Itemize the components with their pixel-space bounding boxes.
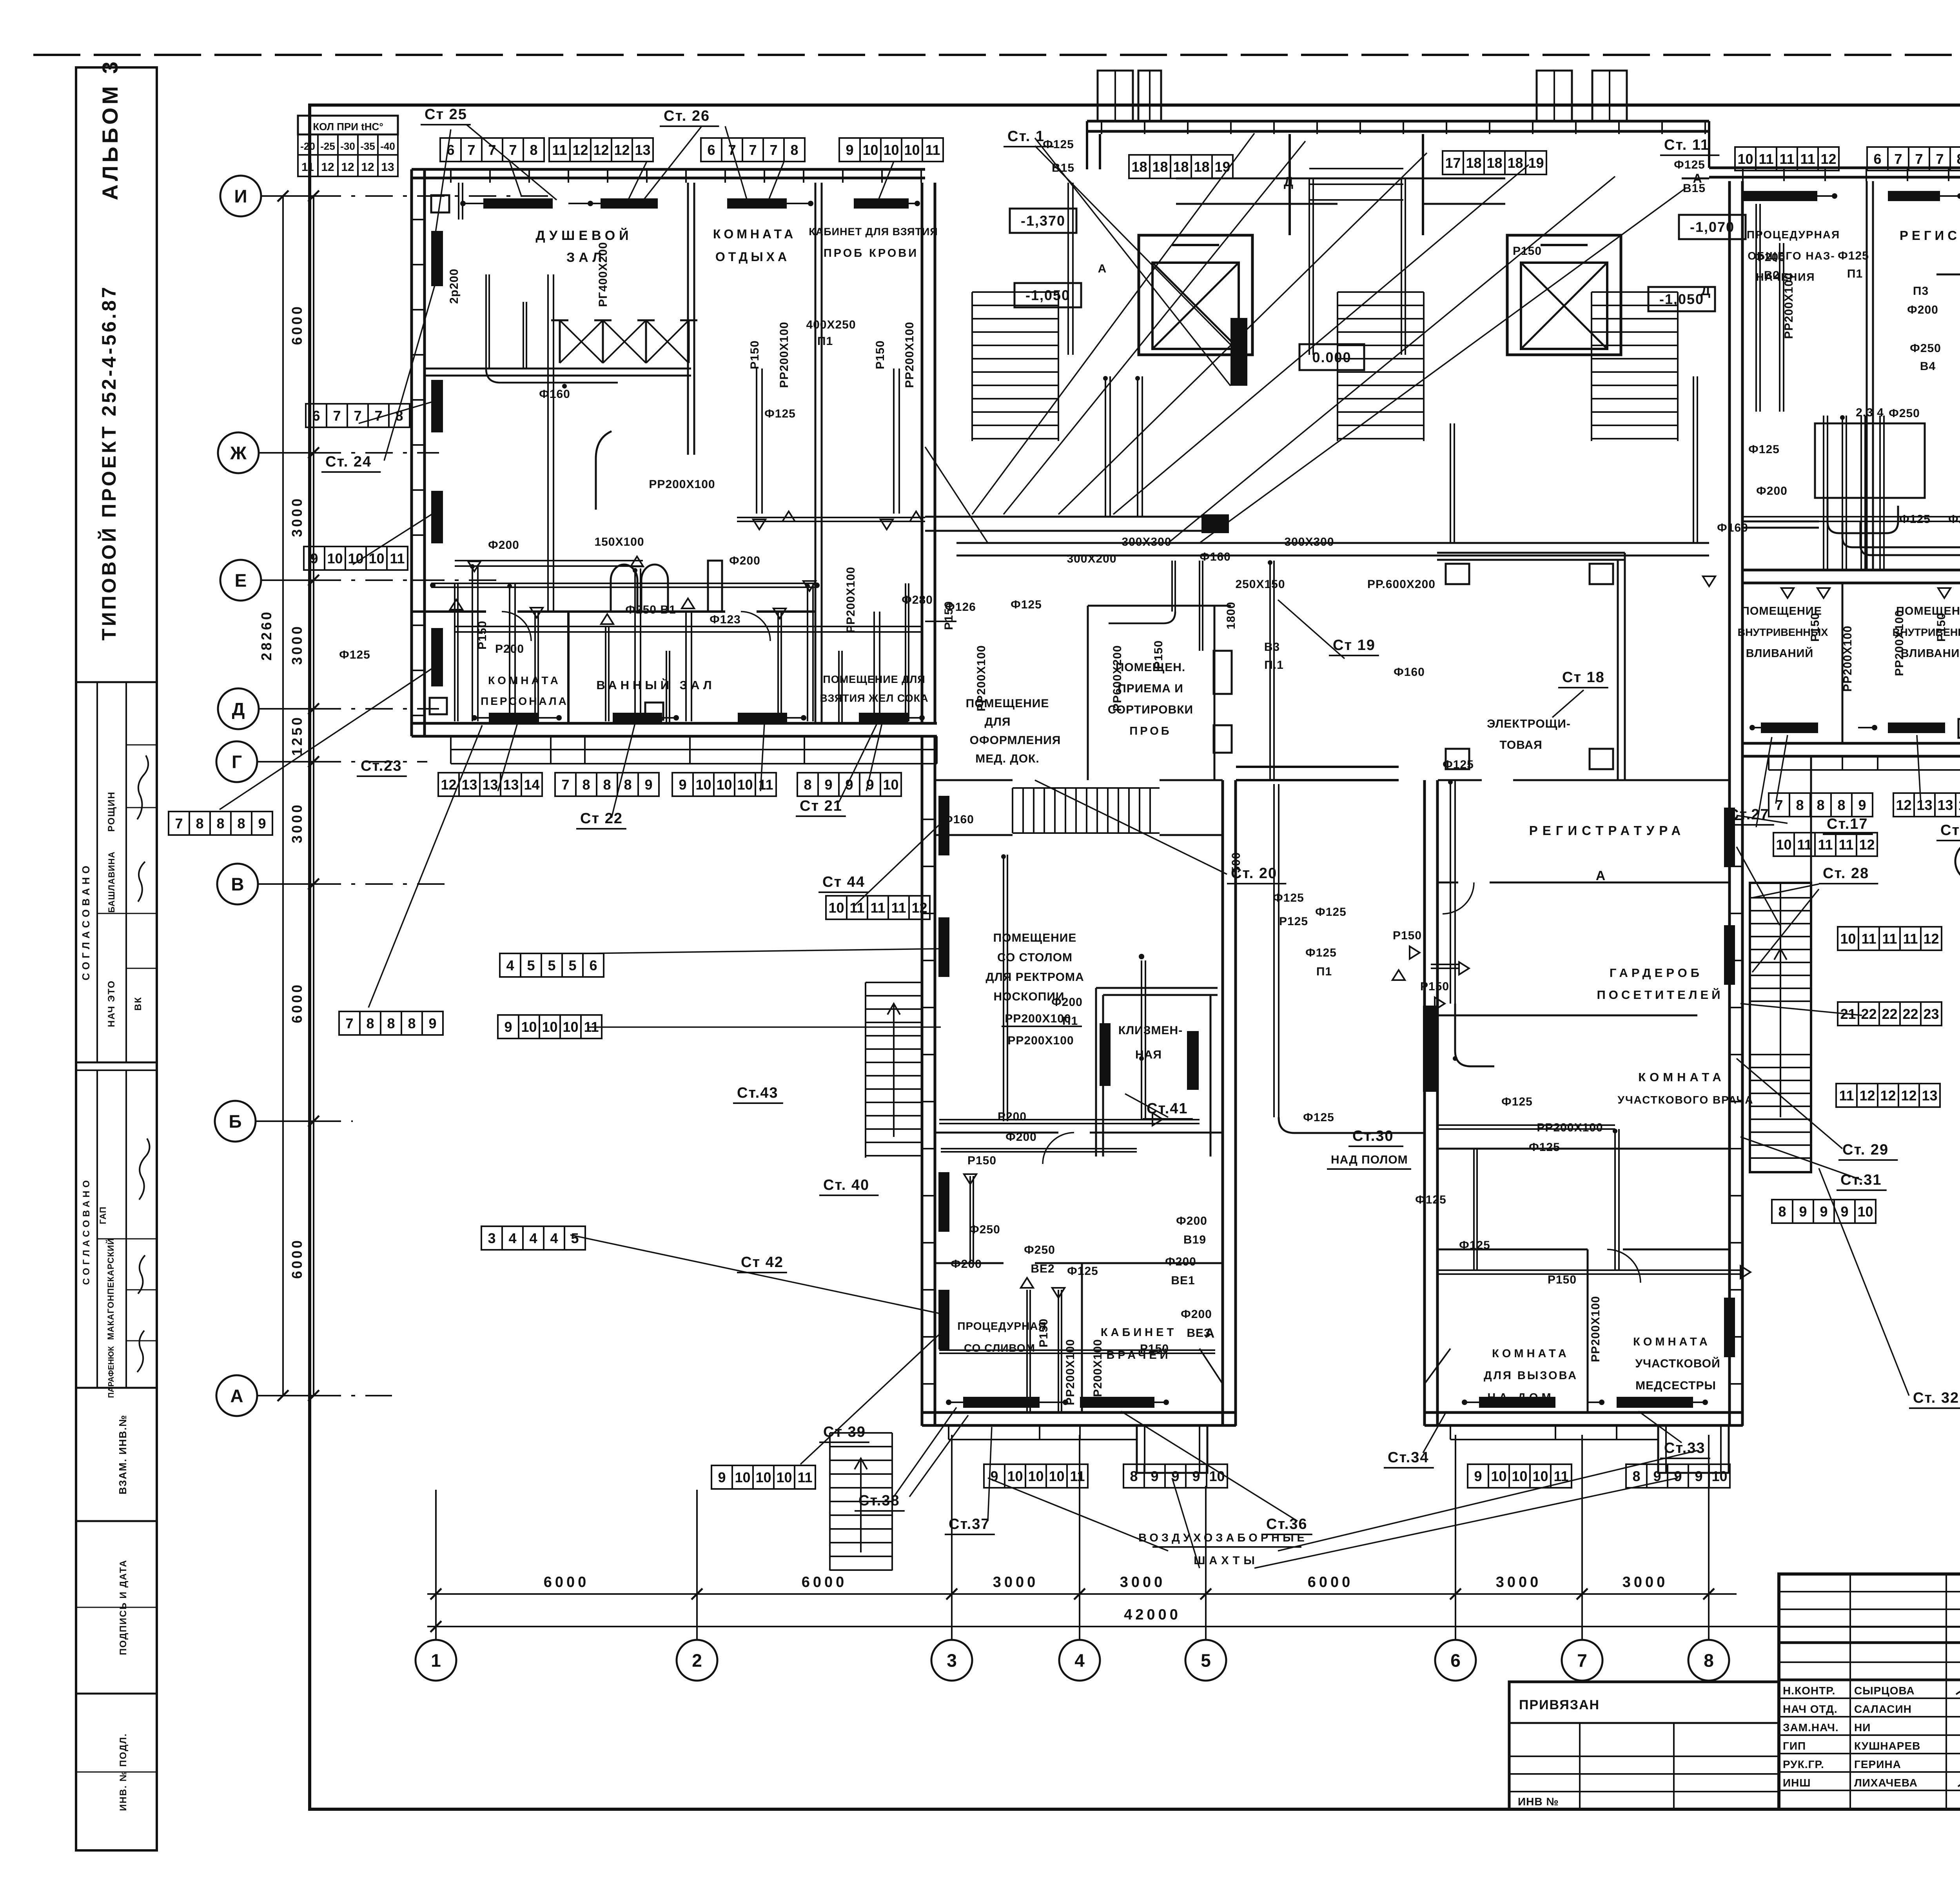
svg-text:Ст 21: Ст 21 [800, 798, 842, 814]
svg-text:12: 12 [593, 142, 609, 158]
svg-text:-30: -30 [340, 140, 355, 152]
svg-text:18: 18 [1486, 155, 1502, 171]
svg-text:9: 9 [846, 142, 853, 158]
radiator right wing top x4816 [1888, 191, 1940, 201]
svg-text:ПЕКАРСКИЙ: ПЕКАРСКИЙ [106, 1238, 116, 1294]
radiator left wall y1602 [431, 628, 443, 686]
svg-text:7: 7 [509, 142, 517, 158]
svg-text:РР200Х100: РР200Х100 [1841, 625, 1854, 692]
axis 3 circle [931, 1640, 972, 1681]
svg-text:Ф125: Ф125 [1067, 1265, 1098, 1278]
svg-text:8: 8 [237, 815, 245, 831]
svg-text:ЛИХАЧЕВА: ЛИХАЧЕВА [1854, 1777, 1918, 1789]
svg-text:4: 4 [508, 1230, 516, 1246]
svg-text:ВК: ВК [133, 997, 143, 1011]
svg-text:13: 13 [1958, 797, 1960, 813]
temperature table [298, 116, 398, 134]
number box 6-8 at 780,1030 [306, 404, 327, 427]
svg-text:И: И [234, 186, 247, 207]
svg-text:ОФОРМЛЕНИЯ: ОФОРМЛЕНИЯ [970, 734, 1061, 747]
number box 10-12 at 2107,2285 [826, 896, 847, 919]
svg-text:5: 5 [1201, 1650, 1211, 1671]
svg-text:5: 5 [571, 1230, 579, 1246]
svg-text:3000: 3000 [289, 802, 305, 843]
left leg outer walls [921, 736, 924, 1426]
svg-text:Ст 16: Ст 16 [1940, 822, 1960, 839]
svg-text:12: 12 [1820, 151, 1836, 167]
svg-text:8: 8 [1704, 1650, 1714, 1671]
svg-text:ОТДЫХА: ОТДЫХА [715, 250, 790, 264]
svg-text:Р150: Р150 [1393, 929, 1422, 942]
svg-text:12: 12 [1859, 1087, 1875, 1104]
svg-text:18: 18 [1152, 159, 1168, 175]
svg-text:9: 9 [1820, 1204, 1828, 1220]
svg-text:НИ: НИ [1854, 1721, 1871, 1734]
svg-text:7: 7 [175, 815, 183, 831]
privyazan box [1509, 1682, 1779, 1809]
radiator left leg y2990 [938, 1172, 949, 1232]
svg-text:Р200: Р200 [998, 1110, 1027, 1123]
svg-text:ВЕ2: ВЕ2 [1031, 1262, 1054, 1275]
number box 10-12 at 4688,2364 [1838, 927, 1858, 950]
svg-text:Ст.30: Ст.30 [1352, 1128, 1394, 1144]
svg-text:В3: В3 [1264, 641, 1280, 654]
svg-text:ТИПОВОЙ ПРОЕКТ 252-4-56.87: ТИПОВОЙ ПРОЕКТ 252-4-56.87 [98, 285, 120, 641]
svg-text:Р125: Р125 [1279, 915, 1308, 928]
svg-text:-40: -40 [380, 140, 395, 152]
svg-text:Ф200: Ф200 [729, 554, 760, 567]
svg-text:Н.КОНТР.: Н.КОНТР. [1783, 1685, 1835, 1697]
svg-text:11: 11 [1838, 837, 1853, 853]
svg-text:7: 7 [1577, 1650, 1587, 1671]
staircase right of elevator2 [1592, 291, 1678, 293]
svg-text:УЧАСТКОВОЙ: УЧАСТКОВОЙ [1635, 1357, 1720, 1370]
svg-text:10: 10 [1857, 1204, 1873, 1220]
svg-text:Р150: Р150 [1152, 640, 1165, 669]
svg-text:Ф200: Ф200 [1005, 1131, 1037, 1144]
svg-text:Ф250 В1: Ф250 В1 [625, 603, 676, 616]
riser bar near elevator [1230, 318, 1247, 386]
svg-text:ПРОБ КРОВИ: ПРОБ КРОВИ [824, 247, 918, 260]
svg-text:СОГЛАСОВАНО: СОГЛАСОВАНО [81, 1177, 92, 1285]
radiator top wall x1233 [483, 198, 553, 209]
svg-text:Ф125: Ф125 [1529, 1141, 1560, 1154]
svg-text:Р150: Р150 [1513, 245, 1542, 258]
svg-text:11: 11 [301, 161, 314, 174]
svg-text:10: 10 [862, 142, 878, 158]
svg-text:11: 11 [1839, 1087, 1854, 1104]
svg-text:1800: 1800 [1225, 602, 1238, 630]
svg-text:12: 12 [1923, 931, 1939, 947]
svg-text:Ф125: Ф125 [1443, 758, 1474, 771]
svg-text:12: 12 [572, 142, 588, 158]
extra pipes left wing bottom [431, 583, 815, 584]
svg-text:Ф123: Ф123 [710, 613, 741, 626]
svg-text:2р200: 2р200 [448, 269, 461, 304]
left leg radiators inner [1100, 1023, 1111, 1086]
svg-text:3000: 3000 [1496, 1574, 1542, 1590]
svg-text:11: 11 [1818, 837, 1833, 853]
svg-text:Ф200: Ф200 [1051, 996, 1083, 1009]
svg-text:4: 4 [1074, 1650, 1085, 1671]
svg-text:7: 7 [1936, 151, 1944, 167]
number box 21-23 at 4688,2556 [1838, 1002, 1858, 1026]
svg-text:10: 10 [1840, 931, 1856, 947]
axis 2 circle [677, 1640, 717, 1681]
right wing outer walls [1709, 167, 1960, 169]
svg-text:Б: Б [229, 1111, 241, 1132]
porch at left leg bottom [1137, 1426, 1207, 1473]
svg-text:ГЕРИНА: ГЕРИНА [1854, 1758, 1901, 1770]
svg-text:ГИП: ГИП [1783, 1740, 1806, 1752]
svg-text:8: 8 [1837, 797, 1845, 813]
svg-text:12: 12 [321, 161, 334, 174]
extra central risers [1199, 561, 1200, 651]
svg-text:10: 10 [542, 1019, 557, 1035]
svg-text:НА ДОМ: НА ДОМ [1487, 1391, 1554, 1404]
svg-text:Ст 22: Ст 22 [580, 810, 623, 827]
svg-text:В: В [231, 874, 244, 895]
svg-text:Ст. 40: Ст. 40 [823, 1177, 869, 1193]
radiator left wall y1252 [431, 491, 443, 543]
svg-text:СОГЛАСОВАНО: СОГЛАСОВАНО [80, 862, 92, 980]
svg-text:1: 1 [431, 1650, 441, 1671]
svg-text:КОМНАТА: КОМНАТА [488, 674, 561, 686]
svg-text:КОЛ ПРИ tНС°: КОЛ ПРИ tНС° [313, 121, 383, 133]
svg-text:11: 11 [1797, 837, 1812, 853]
svg-text:-35: -35 [360, 140, 375, 152]
right wing west wall [1728, 181, 1731, 780]
svg-text:3000: 3000 [289, 496, 305, 537]
svg-text:9: 9 [310, 550, 318, 566]
radiator bottom wall x1247 [489, 713, 539, 723]
svg-text:9: 9 [845, 777, 853, 793]
svg-text:СЫРЦОВА: СЫРЦОВА [1854, 1685, 1915, 1697]
svg-text:7: 7 [374, 408, 382, 424]
svg-text:Р150: Р150 [1420, 980, 1449, 993]
sheet top edge dashed line [33, 54, 1960, 56]
svg-text:Ф250: Ф250 [1910, 342, 1941, 355]
svg-text:Д: Д [1701, 283, 1710, 298]
vestibule walls [1289, 134, 1291, 235]
svg-text:РР200Х100: РР200Х100 [649, 478, 715, 491]
axis А circle [216, 1375, 257, 1416]
duct leader diagonals [972, 133, 1254, 514]
axis 4 circle [1059, 1640, 1100, 1681]
east stair block [1750, 883, 1811, 1172]
svg-text:МЕДСЕСТРЫ: МЕДСЕСТРЫ [1635, 1379, 1716, 1392]
svg-text:12: 12 [1859, 837, 1875, 853]
number box 6-8 at 1123,352 [440, 138, 461, 162]
radiator right leg y2060 [1724, 808, 1735, 867]
svg-text:РОЩИН: РОЩИН [106, 791, 117, 831]
number box 11-13 at 1401,352 [549, 138, 570, 162]
svg-text:23: 23 [1923, 1006, 1939, 1022]
right leg partitions [1438, 882, 1458, 884]
svg-text:ВАННЫЙ ЗАЛ: ВАННЫЙ ЗАЛ [596, 678, 715, 692]
svg-text:9: 9 [679, 777, 686, 793]
svg-text:11: 11 [1903, 931, 1918, 947]
svg-text:Ст. 28: Ст. 28 [1823, 865, 1869, 882]
svg-text:-20: -20 [300, 140, 315, 152]
svg-text:7: 7 [467, 142, 475, 158]
svg-text:Ст.17: Ст.17 [1827, 816, 1868, 832]
svg-text:18: 18 [1194, 159, 1209, 175]
svg-text:Ст 25: Ст 25 [425, 106, 467, 123]
door arcs [1443, 882, 1474, 914]
svg-text:Ф125: Ф125 [1011, 598, 1042, 611]
svg-text:Ф200: Ф200 [1756, 485, 1788, 497]
svg-text:Ф125: Ф125 [1748, 443, 1780, 456]
svg-text:МЕД. ДОК.: МЕД. ДОК. [975, 752, 1039, 765]
svg-text:Р150: Р150 [748, 340, 761, 369]
svg-text:ВЕ3: ВЕ3 [1187, 1327, 1210, 1340]
svg-text:10: 10 [1512, 1468, 1527, 1484]
svg-text:22: 22 [1902, 1006, 1918, 1022]
svg-text:8: 8 [804, 777, 811, 793]
svg-text:Ф160: Ф160 [1394, 666, 1425, 679]
svg-text:РР.600Х200: РР.600Х200 [1367, 578, 1436, 591]
svg-text:6000: 6000 [1308, 1574, 1354, 1590]
svg-text:10: 10 [737, 777, 753, 793]
svg-text:Ф125: Ф125 [1303, 1111, 1334, 1124]
svg-text:САЛАСИН: САЛАСИН [1854, 1703, 1912, 1715]
svg-text:6000: 6000 [544, 1574, 590, 1590]
svg-text:Ст. 32: Ст. 32 [1913, 1390, 1959, 1406]
svg-text:Ст.37: Ст.37 [949, 1516, 990, 1532]
svg-text:Р150: Р150 [874, 340, 887, 369]
svg-text:ГАП: ГАП [98, 1206, 108, 1224]
axis Б circle [215, 1101, 256, 1142]
svg-text:КАБИНЕТ: КАБИНЕТ [1101, 1326, 1177, 1339]
svg-text:Ф200: Ф200 [1176, 1215, 1207, 1227]
svg-text:КУШНАРЕВ: КУШНАРЕВ [1854, 1740, 1920, 1752]
svg-text:Ст.38: Ст.38 [858, 1492, 900, 1509]
svg-text:10: 10 [695, 777, 711, 793]
svg-text:Ф200: Ф200 [951, 1258, 982, 1271]
wall between legs [1236, 766, 1399, 768]
svg-text:9: 9 [1799, 1204, 1807, 1220]
svg-text:Ф250: Ф250 [1024, 1244, 1055, 1256]
svg-text:11: 11 [1861, 931, 1876, 947]
svg-text:Ф126: Ф126 [945, 601, 976, 614]
svg-text:4: 4 [550, 1230, 558, 1246]
number box 9-11 at 1270,2589 [498, 1015, 519, 1038]
svg-text:10: 10 [776, 1469, 792, 1485]
number box 12-14 at 4830,2023 [1893, 793, 1914, 817]
svg-text:Ф125: Ф125 [339, 648, 370, 661]
number box 7-9 at 4512,2023 [1769, 793, 1789, 817]
svg-text:300Х200: 300Х200 [1067, 552, 1116, 565]
svg-text:11: 11 [1070, 1468, 1085, 1484]
svg-text:7: 7 [354, 408, 361, 424]
svg-text:10: 10 [716, 777, 732, 793]
svg-text:9: 9 [1674, 1468, 1682, 1484]
svg-text:250Х150: 250Х150 [1235, 578, 1285, 591]
svg-text:РР200Х100: РР200Х100 [778, 321, 791, 388]
svg-text:6000: 6000 [289, 304, 305, 345]
svg-text:6: 6 [1450, 1650, 1461, 1671]
left leg radiators bottom [963, 1397, 1040, 1408]
svg-text:Ст. 29: Ст. 29 [1842, 1142, 1889, 1158]
bottom dimension lines [427, 1593, 1737, 1595]
axis 7 circle [1562, 1640, 1602, 1681]
middle wall between kabinet and entry [921, 183, 924, 723]
title block [1779, 1574, 1960, 1809]
axis В circle [217, 864, 258, 904]
extra pipes shower room [485, 274, 487, 369]
svg-text:Е: Е [235, 570, 247, 591]
axis Ж circle [218, 432, 259, 473]
svg-text:12: 12 [341, 161, 354, 174]
stairs west outside lower [830, 1432, 892, 1434]
svg-text:9: 9 [428, 1015, 436, 1031]
svg-text:Ф250: Ф250 [1889, 407, 1920, 420]
svg-text:9: 9 [718, 1469, 726, 1485]
svg-text:10: 10 [904, 142, 920, 158]
svg-text:Ф125: Ф125 [1043, 138, 1074, 151]
pipes right wing [1823, 416, 1824, 570]
svg-text:7: 7 [1915, 151, 1923, 167]
svg-text:12: 12 [1896, 797, 1911, 813]
pom priema i sortirovki prob room [1088, 605, 1231, 607]
svg-text:42000: 42000 [1124, 1607, 1181, 1623]
svg-text:ВЛИВАНИЙ: ВЛИВАНИЙ [1901, 646, 1960, 660]
svg-text:Ф200: Ф200 [1907, 303, 1938, 316]
svg-text:КОМНАТА: КОМНАТА [1633, 1336, 1711, 1348]
svg-text:9: 9 [1151, 1468, 1158, 1484]
radiator top wall x1532 [601, 198, 658, 209]
valve triangles assorted [468, 561, 481, 572]
svg-text:Ф160: Ф160 [1200, 550, 1231, 563]
elevator shaft 2 [1507, 235, 1621, 355]
svg-text:КАБИНЕТ ДЛЯ ВЗЯТИЯ: КАБИНЕТ ДЛЯ ВЗЯТИЯ [809, 226, 938, 238]
svg-text:10: 10 [735, 1469, 750, 1485]
svg-text:РЕГИСТРАТУРА: РЕГИСТРАТУРА [1529, 823, 1686, 838]
svg-text:АЛЬБОМ 3: АЛЬБОМ 3 [98, 58, 122, 200]
pipes left leg [1003, 855, 1004, 1121]
svg-text:9: 9 [504, 1019, 512, 1035]
svg-text:Ф200: Ф200 [1754, 251, 1786, 264]
svg-text:Ф125: Ф125 [1838, 249, 1869, 262]
svg-text:8: 8 [196, 815, 203, 831]
radiator bottom wall x1882 [738, 713, 787, 723]
number box 9-11 at 1815,3738 [711, 1465, 732, 1489]
svg-text:РР200Х100: РР200Х100 [975, 645, 988, 711]
svg-text:1250: 1250 [289, 715, 305, 756]
svg-text:В4: В4 [1920, 360, 1936, 373]
svg-text:Ж: Ж [230, 443, 247, 463]
radiator bottom wall x2191 [859, 713, 908, 723]
svg-text:ЗАМ.НАЧ.: ЗАМ.НАЧ. [1783, 1721, 1839, 1734]
svg-text:ДЛЯ ВЫЗОВА: ДЛЯ ВЫЗОВА [1484, 1369, 1578, 1382]
bath tubs in bath hall [611, 565, 637, 612]
door swing right leg [1425, 1349, 1450, 1384]
svg-text:-1,050: -1,050 [1659, 291, 1704, 307]
svg-text:300Х300: 300Х300 [1284, 536, 1334, 548]
svg-text:12: 12 [1880, 1087, 1896, 1104]
radiator top wall x2178 [854, 198, 909, 209]
svg-text:-25: -25 [320, 140, 335, 152]
number box 9-11 at 775,1394 [304, 546, 325, 570]
svg-text:А: А [1596, 868, 1606, 883]
svg-text:9: 9 [1858, 797, 1866, 813]
pipes central [1105, 376, 1106, 517]
svg-text:СО СЛИВОМ: СО СЛИВОМ [964, 1342, 1035, 1354]
svg-text:Ф125: Ф125 [764, 407, 796, 420]
svg-text:РР200Х100: РР200Х100 [1005, 1012, 1071, 1025]
right wing pipe bundle extras [1828, 498, 1898, 533]
axis 8 circle [1688, 1640, 1729, 1681]
svg-text:СО СТОЛОМ: СО СТОЛОМ [997, 951, 1073, 964]
svg-text:8: 8 [216, 815, 224, 831]
svg-text:РГ400Х200: РГ400Х200 [597, 242, 610, 307]
pipes left wing [472, 565, 473, 721]
svg-text:11: 11 [390, 550, 405, 566]
svg-text:8: 8 [790, 142, 798, 158]
radiator right leg y2360 [1724, 925, 1735, 985]
svg-text:Р150: Р150 [1548, 1273, 1577, 1286]
svg-text:11: 11 [1882, 931, 1897, 947]
svg-text:22: 22 [1861, 1006, 1877, 1022]
middle corridor walls [1176, 178, 1505, 180]
svg-text:9: 9 [1840, 1204, 1848, 1220]
svg-text:5: 5 [527, 957, 535, 973]
left dimension line [313, 196, 314, 1396]
svg-text:Ф200: Ф200 [488, 539, 519, 552]
svg-text:9: 9 [1192, 1468, 1200, 1484]
svg-text:ШАХТЫ: ШАХТЫ [1194, 1554, 1259, 1567]
staircase left of elevator1 [972, 291, 1058, 293]
svg-text:КОМНАТА: КОМНАТА [713, 227, 796, 241]
svg-text:6: 6 [707, 142, 715, 158]
number box 9-11 at 2510,3735 [984, 1464, 1005, 1488]
number box 8-10 at 4148,3735 [1626, 1464, 1647, 1488]
svg-text:УЧАСТКОВОГО ВРАЧА: УЧАСТКОВОГО ВРАЧА [1618, 1094, 1754, 1106]
svg-text:Ф125: Ф125 [1501, 1095, 1533, 1108]
svg-text:В2: В2 [1764, 269, 1780, 282]
svg-text:8: 8 [1778, 1204, 1786, 1220]
svg-text:6: 6 [1873, 151, 1881, 167]
svg-text:Ф125: Ф125 [1415, 1193, 1446, 1206]
svg-text:Ст.43: Ст.43 [737, 1085, 779, 1101]
axis 5 circle [1185, 1640, 1226, 1681]
svg-text:РР200Х100: РР200Х100 [1091, 1339, 1104, 1405]
svg-text:18: 18 [1131, 159, 1147, 175]
svg-text:10: 10 [1491, 1468, 1506, 1484]
svg-text:ДЛЯ: ДЛЯ [985, 715, 1011, 728]
svg-text:Д: Д [232, 699, 245, 719]
svg-text:ТОВАЯ: ТОВАЯ [1499, 739, 1542, 752]
svg-text:9: 9 [1474, 1468, 1482, 1484]
axis Е circle [220, 560, 261, 601]
svg-text:6000: 6000 [802, 1574, 848, 1590]
svg-text:6000: 6000 [289, 1238, 305, 1279]
main drawing frame [310, 105, 1960, 1809]
number box 4-6 at 1275,2432 [500, 953, 521, 977]
svg-text:8: 8 [624, 777, 632, 793]
svg-text:18: 18 [1507, 155, 1523, 171]
svg-text:12: 12 [441, 777, 456, 793]
svg-text:11: 11 [891, 900, 906, 916]
middle section top wall [1087, 120, 1709, 123]
svg-text:10: 10 [1028, 1468, 1044, 1484]
leg top walls [935, 779, 1013, 781]
radiator top wall x1855 [727, 198, 787, 209]
svg-text:8: 8 [1796, 797, 1804, 813]
corridor riser between legs [1273, 784, 1275, 1117]
svg-text:14: 14 [524, 777, 539, 793]
